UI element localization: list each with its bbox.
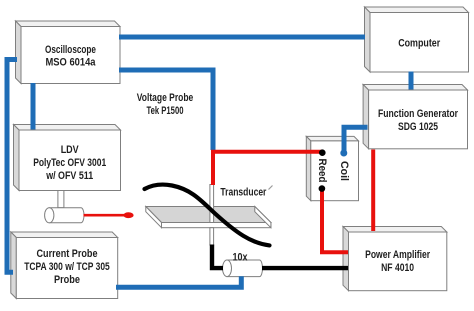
svg-text:Current Probe: Current Probe — [37, 248, 98, 260]
svg-text:Computer: Computer — [398, 38, 440, 50]
svg-text:Coil: Coil — [338, 161, 350, 181]
svg-text:Voltage Probe: Voltage Probe — [137, 92, 194, 104]
svg-text:Function Generator: Function Generator — [378, 108, 458, 120]
svg-text:Tek P1500: Tek P1500 — [147, 105, 184, 117]
svg-text:w/ OFV 511: w/ OFV 511 — [45, 170, 93, 182]
svg-text:PolyTec OFV 3001: PolyTec OFV 3001 — [33, 157, 106, 169]
svg-text:SDG 1025: SDG 1025 — [398, 121, 438, 133]
svg-text:NF 4010: NF 4010 — [381, 262, 414, 274]
svg-text:LDV: LDV — [61, 144, 79, 156]
svg-text:Reed: Reed — [316, 159, 328, 183]
svg-text:Power Amplifier: Power Amplifier — [365, 249, 430, 261]
svg-text:Transducer: Transducer — [220, 187, 266, 199]
svg-text:MSO 6014a: MSO 6014a — [46, 57, 96, 69]
svg-text:Oscilloscope: Oscilloscope — [45, 44, 96, 56]
svg-text:TCPA 300 w/ TCP 305: TCPA 300 w/ TCP 305 — [24, 261, 110, 273]
svg-text:Probe: Probe — [54, 274, 80, 286]
svg-text:10x: 10x — [233, 252, 248, 264]
